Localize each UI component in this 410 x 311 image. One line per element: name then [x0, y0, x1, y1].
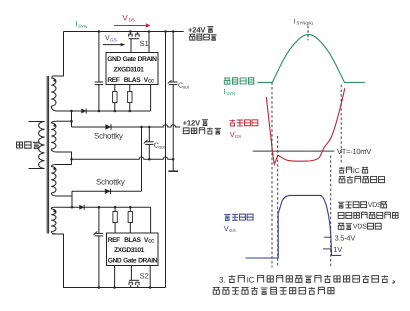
label 整流電流: [224, 78, 254, 84]
wire: top winding lead to +24V rail: [52, 32, 63, 77]
node: R3 top: [114, 206, 117, 209]
svg-text:+24V: +24V: [188, 25, 206, 34]
svg-text:3.: 3.: [219, 275, 226, 284]
label 音訊放大器: [183, 128, 221, 134]
svg-text:V: V: [105, 35, 110, 42]
svg-text:Gate: Gate: [123, 56, 137, 63]
capacitor Cout1 (+24V output cap): [172, 32, 174, 83]
svg-text:GS: GS: [110, 37, 116, 42]
svg-text:Gate: Gate: [123, 257, 137, 264]
capacitor C1 (bias supply cap): [98, 32, 100, 83]
svg-text:ZXGD3101: ZXGD3101: [114, 247, 145, 254]
transformer secondary winding group 3: [51, 165, 56, 167]
dashed line D2 (gate turn-on): [277, 136, 279, 268]
node: group2 top joint: [70, 120, 73, 123]
node: +24V vertical rail tap: [164, 30, 167, 33]
phase dot group 4: [53, 210, 55, 212]
wire: tap C jog: [56, 152, 72, 165]
diode D3 Schottky (upper): [105, 124, 111, 129]
svg-text:VT=-10mV: VT=-10mV: [337, 147, 371, 156]
wire: bias rail 2 (tap D): [54, 206, 151, 208]
node: Cout1 tap: [172, 30, 175, 33]
node: C1 bottom: [98, 110, 101, 113]
node: R1 bottom: [114, 110, 117, 113]
svg-text:DRAIN: DRAIN: [138, 257, 158, 264]
node: Cout2 top: [148, 126, 151, 129]
svg-text:VDS: VDS: [353, 224, 367, 231]
red drain voltage waveform: [266, 88, 345, 164]
svg-text:S1: S1: [140, 39, 149, 48]
svg-text:Schottky: Schottky: [96, 177, 125, 186]
wire: Schottky2 output riser: [141, 127, 143, 191]
resistor R3 (REF lower): [114, 207, 116, 211]
node: Cout2 bottom: [148, 158, 151, 161]
label 到 (+12V): [202, 120, 208, 126]
wire: +12V rail with crossover hops: [72, 125, 181, 127]
transformer secondary winding group 2: [51, 121, 56, 123]
svg-text:out: out: [183, 84, 190, 89]
node: cap C1 on top rail: [98, 30, 101, 33]
svg-text:DS: DS: [235, 134, 241, 139]
wire: IC2 Vcc riser: [150, 207, 152, 233]
svg-text:SYN: SYN: [226, 91, 235, 96]
svg-text:V: V: [224, 224, 229, 233]
diode D1 (bias): [81, 109, 86, 114]
tick 1V: [323, 248, 331, 250]
svg-text:+12V: +12V: [183, 118, 201, 127]
wire: +24V vertical rail (to S2 side): [165, 32, 167, 288]
wire: ground rail (center tap) with hops: [72, 157, 174, 159]
wire: Schottky2 rail: [72, 190, 142, 192]
label 電壓(2): [368, 223, 382, 229]
node: tap D junction: [71, 206, 74, 209]
node: R2 bottom: [129, 110, 132, 113]
tick 3.5-4V: [324, 236, 331, 238]
node: IC2 GND joint: [113, 286, 116, 289]
label 於負: [338, 223, 352, 229]
svg-text:BLAS: BLAS: [124, 77, 141, 84]
svg-text:ZXGD3101: ZXGD3101: [114, 67, 145, 74]
svg-text:Schottky: Schottky: [94, 132, 123, 141]
label 的: [362, 167, 368, 173]
phase dot group 1: [53, 79, 55, 81]
svg-text:V: V: [122, 13, 128, 22]
svg-text:DRAIN: DRAIN: [138, 56, 158, 63]
label 閘極電壓: [224, 214, 253, 220]
VT threshold line: [253, 150, 335, 152]
node: tap B junction: [70, 110, 73, 113]
wire: to group2 top: [56, 120, 72, 122]
blue gate voltage waveform: [246, 195, 342, 258]
transformer T1 core: [46, 76, 48, 234]
node: C3 bottom: [98, 286, 101, 289]
svg-text:S2: S2: [140, 271, 149, 280]
node: R4 top: [129, 206, 132, 209]
IC U1 ZXGD3101 box: [106, 53, 158, 85]
IC U2 ZXGD3101 box (mirrored): [107, 233, 159, 266]
fn 體二極體則在這段時間內導通: [213, 287, 334, 294]
capacitor C3 (bias cap lower): [98, 207, 100, 233]
svg-text:3.5-4V: 3.5-4V: [335, 233, 356, 242]
svg-text:SYN: SYN: [78, 24, 87, 29]
wire: bottom rail (winding bottom to S2): [52, 234, 165, 288]
phase dot group 2: [53, 124, 55, 126]
node: Schottky2 feed joins +12V rail: [140, 126, 143, 129]
dashed line D4 (current end): [340, 85, 342, 164]
svg-text:IC: IC: [353, 168, 360, 175]
wire: tap D jog: [57, 191, 73, 196]
capacitor Cout2: [148, 127, 150, 142]
transformer secondary winding group 1: [51, 76, 53, 78]
node: IC2 DRAIN joint: [149, 286, 152, 289]
svg-text:GND: GND: [107, 56, 121, 63]
label 變壓器: [17, 142, 40, 149]
dashed line D1 (current start): [271, 82, 273, 267]
svg-text:V: V: [230, 130, 235, 139]
svg-text:DS: DS: [129, 18, 135, 23]
wire: S1 gate to IC1: [130, 39, 132, 53]
label 背光電源: [189, 34, 216, 40]
transformer T1 primary winding: [29, 122, 45, 169]
MOSFET S2 (sync rectifier, mirrored): [130, 285, 132, 288]
fn 導通延遲的限制可防止虛假開啟，: [258, 275, 395, 283]
label 到 (+24V): [207, 27, 213, 33]
MOSFET S1 (sync rectifier): [129, 32, 131, 35]
phase dot group 3: [53, 168, 55, 170]
wire: bias rail 1 (tap B): [57, 110, 151, 112]
svg-text:SYN(pk): SYN(pk): [296, 20, 313, 25]
svg-text:GND: GND: [108, 257, 122, 264]
label 閘極電壓(VDS): [338, 202, 367, 208]
label 關斷閾值電壓: [339, 176, 385, 183]
svg-text:IC: IC: [247, 275, 255, 284]
diode D4 Schottky (lower): [105, 189, 111, 194]
diode D2 (bias lower): [79, 205, 84, 210]
wire: IC2 GND to bottom rail: [114, 266, 116, 288]
wire: IC1 DRAIN pin to rail: [148, 32, 150, 53]
node: S1 drain on top rail: [129, 30, 132, 33]
resistor R1 (REF): [114, 85, 116, 92]
svg-text:REF: REF: [107, 77, 119, 84]
wire: IC2 DRAIN to bottom rail: [149, 266, 151, 288]
transformer secondary winding group 4: [51, 207, 53, 209]
svg-text:BLAS: BLAS: [124, 237, 141, 244]
svg-text:out: out: [159, 144, 166, 149]
label 控制: [339, 167, 352, 173]
wire: +24V top rail: [64, 31, 184, 33]
ground symbol: [172, 159, 174, 171]
resistor R2 (BLAS): [129, 85, 131, 92]
fn 控制: [229, 275, 245, 282]
wire: IC1 Vcc to bias rail: [150, 85, 152, 112]
label 的(2): [381, 202, 387, 208]
svg-text:VDS: VDS: [368, 202, 382, 209]
label 漏極電壓: [229, 119, 257, 126]
dashed line D3 (gate turn-off): [330, 156, 332, 268]
green rectified current waveform: [258, 35, 365, 83]
node: S1 source / DRAIN pin tap: [148, 30, 151, 33]
wire: IC2 Gate to S2: [130, 266, 132, 281]
IC U1 pin labels row1 GND Gate DRAIN: [107, 56, 157, 84]
label 電壓變化比例取決: [338, 212, 398, 218]
wire: tap B vertical: [71, 111, 73, 127]
svg-text:1V: 1V: [333, 245, 342, 254]
node: C3 top: [98, 206, 101, 209]
svg-text:REF: REF: [108, 237, 120, 244]
peak dashed tick: [307, 26, 309, 41]
svg-text:GS: GS: [229, 228, 235, 233]
resistor R4 (BLAS lower): [129, 207, 131, 211]
node: ground symbol tap: [172, 158, 175, 161]
node: center tap joint: [70, 158, 73, 161]
